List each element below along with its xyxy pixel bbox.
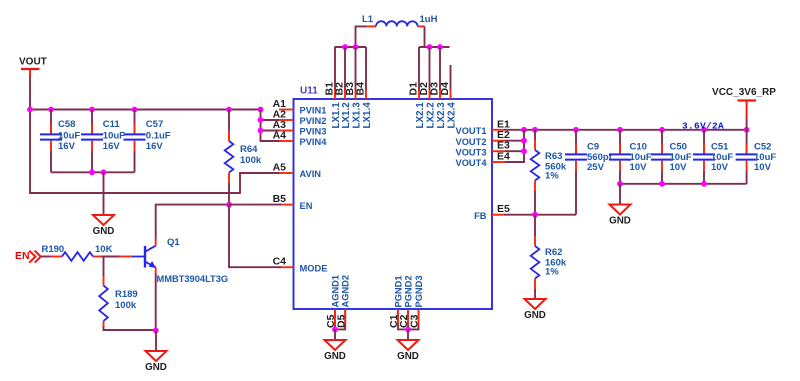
resistor R64 bbox=[225, 110, 262, 205]
ground PGND GND bbox=[397, 329, 419, 361]
power symbol VCC_3V6_RP bbox=[712, 87, 776, 130]
wire L1 right leg to LX2 bus bbox=[424, 26, 426, 47]
power terminal VOUT bbox=[19, 57, 47, 79]
pin number labels B1-B4 bbox=[324, 82, 367, 96]
pins E1-E5 stubs bbox=[492, 130, 505, 215]
svg-text:D4: D4 bbox=[439, 82, 451, 96]
capacitor C50 bbox=[651, 130, 692, 184]
svg-text:A4: A4 bbox=[273, 130, 287, 142]
svg-text:VOUT4: VOUT4 bbox=[456, 158, 488, 168]
svg-text:16V: 16V bbox=[146, 141, 164, 152]
wire FB net bbox=[504, 212, 576, 218]
svg-text:GND: GND bbox=[524, 310, 546, 321]
port EN input bbox=[15, 250, 41, 263]
svg-text:R189: R189 bbox=[115, 289, 138, 300]
op-amp U11 body bbox=[294, 86, 493, 310]
svg-text:1uH: 1uH bbox=[420, 14, 438, 25]
resistor R62 bbox=[531, 215, 567, 289]
svg-text:C4: C4 bbox=[273, 256, 287, 268]
svg-text:GND: GND bbox=[93, 226, 115, 237]
svg-text:C52: C52 bbox=[754, 141, 771, 152]
pin number labels C1 C2 C3 bbox=[388, 314, 421, 328]
wire input rail bbox=[27, 107, 263, 113]
pins B1-B4 stubs bbox=[335, 89, 366, 100]
svg-text:VCC_3V6_RP: VCC_3V6_RP bbox=[712, 87, 776, 98]
svg-text:E4: E4 bbox=[497, 151, 510, 163]
svg-text:E5: E5 bbox=[497, 203, 510, 215]
svg-text:D5: D5 bbox=[335, 314, 347, 328]
svg-text:3.6V/2A: 3.6V/2A bbox=[682, 120, 724, 131]
pin number labels right bbox=[497, 118, 510, 215]
svg-text:LX2.2: LX2.2 bbox=[426, 102, 437, 129]
svg-text:AGND2: AGND2 bbox=[341, 275, 351, 308]
svg-text:C58: C58 bbox=[58, 119, 75, 130]
wire A-pin bus bbox=[258, 110, 281, 142]
svg-text:C9: C9 bbox=[587, 141, 599, 152]
svg-text:VOUT2: VOUT2 bbox=[456, 137, 487, 147]
pin names AGND1 AGND2 bbox=[331, 275, 351, 308]
svg-text:U11: U11 bbox=[300, 86, 318, 97]
capacitor C52 bbox=[736, 130, 777, 184]
svg-text:B5: B5 bbox=[273, 193, 287, 205]
svg-text:GND: GND bbox=[397, 351, 419, 362]
svg-text:C3: C3 bbox=[409, 314, 421, 328]
pin number labels D1-D4 bbox=[408, 82, 452, 96]
svg-text:LX1.3: LX1.3 bbox=[352, 102, 363, 129]
svg-text:C10: C10 bbox=[630, 141, 647, 152]
transistor Q1 bbox=[119, 237, 228, 284]
capacitor C10 bbox=[609, 130, 652, 184]
net label 3.6V/2A bbox=[682, 120, 724, 131]
svg-text:PGND2: PGND2 bbox=[404, 275, 414, 307]
wire MODE net bbox=[229, 205, 281, 268]
svg-text:EN: EN bbox=[300, 201, 313, 211]
svg-text:GND: GND bbox=[145, 362, 167, 373]
svg-text:EN: EN bbox=[15, 250, 30, 262]
svg-text:10K: 10K bbox=[95, 244, 113, 255]
pin number labels left bbox=[273, 98, 287, 268]
svg-text:B4: B4 bbox=[355, 82, 367, 96]
wire LX1 bus bbox=[335, 44, 367, 89]
ground Q1 emitter GND bbox=[145, 330, 167, 372]
svg-text:MODE: MODE bbox=[300, 263, 328, 273]
resistor R190 bbox=[41, 244, 113, 261]
svg-text:MMBT3904LT3G: MMBT3904LT3G bbox=[157, 274, 229, 284]
svg-text:LX2.3: LX2.3 bbox=[436, 102, 447, 129]
svg-text:AVIN: AVIN bbox=[300, 169, 322, 179]
svg-text:LX1.4: LX1.4 bbox=[362, 102, 373, 129]
resistor R189 bbox=[99, 257, 156, 331]
svg-text:Q1: Q1 bbox=[167, 237, 180, 248]
wire E-pin bus bbox=[505, 130, 527, 162]
svg-text:PVIN4: PVIN4 bbox=[300, 137, 328, 147]
svg-text:PVIN1: PVIN1 bbox=[300, 106, 327, 116]
svg-text:100k: 100k bbox=[115, 300, 137, 311]
svg-text:1%: 1% bbox=[545, 267, 559, 278]
svg-text:L1: L1 bbox=[362, 14, 374, 25]
pin names LX2.1-LX2.4 bbox=[415, 102, 458, 129]
ground AGND GND bbox=[324, 329, 346, 361]
wire output caps ground bus bbox=[617, 181, 747, 187]
pin names LX1.1-LX1.4 bbox=[331, 102, 373, 129]
wire EN net to pin B5 bbox=[229, 204, 281, 206]
svg-text:VOUT1: VOUT1 bbox=[456, 126, 487, 136]
ground R62 GND bbox=[524, 289, 546, 321]
svg-text:LX2.1: LX2.1 bbox=[415, 102, 426, 129]
svg-text:C11: C11 bbox=[103, 119, 121, 130]
svg-text:PGND1: PGND1 bbox=[394, 275, 404, 307]
svg-text:10V: 10V bbox=[630, 162, 648, 173]
wire output rail bbox=[504, 127, 749, 133]
wire VOUT vertical to rail and AVIN run bbox=[30, 78, 281, 193]
svg-text:0.1uF: 0.1uF bbox=[146, 131, 171, 142]
svg-text:VOUT3: VOUT3 bbox=[456, 147, 487, 157]
resistor R63 bbox=[531, 130, 567, 215]
svg-text:R62: R62 bbox=[545, 247, 562, 258]
svg-text:10V: 10V bbox=[754, 162, 772, 173]
wire base node bbox=[104, 256, 121, 258]
svg-text:C51: C51 bbox=[711, 141, 729, 152]
inductor L1 bbox=[362, 14, 438, 26]
wire caps bottom bus bbox=[51, 169, 135, 175]
svg-text:10V: 10V bbox=[711, 162, 729, 173]
svg-text:10V: 10V bbox=[670, 162, 688, 173]
wire LX2 bus bbox=[419, 44, 451, 89]
pin names PGND1 PGND2 PGND3 bbox=[394, 275, 425, 307]
svg-text:LX1.2: LX1.2 bbox=[341, 102, 352, 129]
capacitor C11 bbox=[81, 110, 125, 173]
ground input caps GND bbox=[93, 172, 115, 237]
wire emitter to GND node bbox=[153, 274, 159, 334]
svg-text:LX2.4: LX2.4 bbox=[447, 102, 458, 129]
svg-text:GND: GND bbox=[609, 215, 631, 226]
pins D1-D4 stubs bbox=[419, 89, 451, 100]
capacitor C51 bbox=[693, 130, 733, 184]
svg-text:R190: R190 bbox=[42, 244, 65, 255]
svg-text:1%: 1% bbox=[545, 171, 559, 182]
ground output caps GND bbox=[609, 184, 631, 227]
svg-text:100k: 100k bbox=[240, 155, 262, 166]
svg-text:FB: FB bbox=[474, 211, 487, 221]
capacitor C57 bbox=[124, 110, 171, 173]
svg-text:C50: C50 bbox=[670, 141, 687, 152]
svg-text:PGND3: PGND3 bbox=[414, 275, 424, 307]
svg-text:R64: R64 bbox=[240, 144, 258, 155]
pin names left (PVIN1-4 AVIN EN MODE) bbox=[300, 106, 328, 274]
svg-text:R63: R63 bbox=[545, 151, 562, 162]
svg-text:C57: C57 bbox=[146, 119, 163, 130]
capacitor C58 bbox=[40, 110, 80, 173]
capacitor C9 bbox=[565, 130, 613, 215]
pin number labels C5 D5 bbox=[325, 314, 347, 328]
pins C5 D5 stubs (AGND) bbox=[332, 309, 345, 332]
svg-text:PVIN3: PVIN3 bbox=[300, 127, 327, 137]
svg-text:25V: 25V bbox=[587, 162, 605, 173]
svg-text:VOUT: VOUT bbox=[19, 57, 47, 68]
svg-text:16V: 16V bbox=[58, 141, 76, 152]
svg-text:10uF: 10uF bbox=[103, 131, 125, 142]
pins C1 C2 C3 stubs (PGND) bbox=[398, 309, 419, 332]
svg-text:A5: A5 bbox=[273, 162, 287, 174]
svg-text:PVIN2: PVIN2 bbox=[300, 116, 327, 126]
svg-text:16V: 16V bbox=[103, 141, 121, 152]
pin names right (VOUT1-4 FB) bbox=[456, 126, 488, 221]
pins A1-A4 A5 B5 C4 stubs bbox=[279, 110, 294, 268]
svg-text:GND: GND bbox=[324, 351, 346, 362]
wire collector to EN net bbox=[156, 202, 232, 239]
svg-text:AGND1: AGND1 bbox=[331, 275, 341, 308]
svg-text:10uF: 10uF bbox=[58, 131, 80, 142]
wire L1 left leg to LX1 bus bbox=[356, 26, 368, 47]
